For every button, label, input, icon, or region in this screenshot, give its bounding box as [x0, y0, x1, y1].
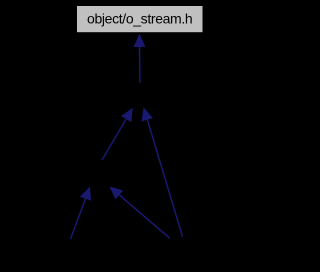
wire edge C: bottom-right hidden node -> middle hidden node	[142, 107, 183, 236]
wire edge B: lower-left hidden node -> middle hidden node	[102, 108, 133, 160]
wire edge D: bottom-left hidden node -> lower-left hidden node	[71, 187, 92, 240]
wire edge A: hidden node -> object/o_stream.h	[134, 34, 146, 83]
svg-text:object/o_stream.h: object/o_stream.h	[87, 11, 192, 27]
wire edge E: bottom-right hidden node -> lower-left hidden node	[110, 187, 170, 239]
include-dependency graph for object/o_stream.h (doxygen style, black background)	[0, 0, 224, 272]
node box object/o_stream.h	[77, 6, 203, 32]
